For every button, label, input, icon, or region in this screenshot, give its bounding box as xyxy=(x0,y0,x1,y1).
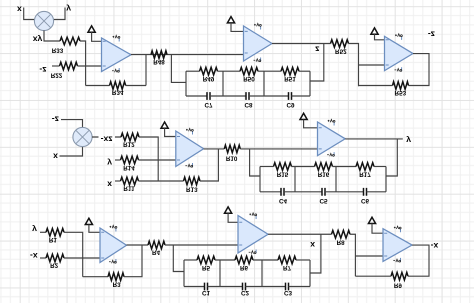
wire tee from U1-U2 wire down to network N1 xyxy=(171,55,186,83)
wire N2 left edge xyxy=(259,167,261,192)
wire y to R14 xyxy=(115,159,121,161)
svg-text:R11: R11 xyxy=(123,185,135,192)
node x (row1 input) xyxy=(17,4,22,14)
svg-text:C9: C9 xyxy=(286,101,295,108)
svg-text:R4: R4 xyxy=(152,249,161,256)
node x (row2 input) xyxy=(107,180,112,190)
wire N1 top rail segment 1 xyxy=(186,70,200,72)
wire from x to multiplier M1 xyxy=(24,8,35,20)
node x (row3 output) xyxy=(310,240,315,250)
wire N1 left edge xyxy=(185,71,187,96)
wire R34 rail left xyxy=(86,85,110,87)
svg-text:R1: R1 xyxy=(49,236,58,243)
svg-text:xy: xy xyxy=(33,34,43,44)
wire feedback riser U1 output to R34 xyxy=(145,55,147,86)
svg-text:R51: R51 xyxy=(284,75,296,82)
wire R34 rail right xyxy=(126,85,146,87)
svg-text:R9: R9 xyxy=(394,282,403,289)
wire R1 to summing node A3 xyxy=(64,232,83,276)
wire N1 right edge xyxy=(309,71,311,96)
svg-text:y: y xyxy=(406,136,411,146)
resistor R16 xyxy=(315,163,333,178)
op-amp U4 xyxy=(176,128,204,167)
wire -x to R2 xyxy=(40,257,46,259)
capacitor C8 xyxy=(244,92,253,108)
wire N2 junction 1 xyxy=(294,167,296,192)
resistor R22 xyxy=(51,62,78,78)
op-amp U3 (inverter) xyxy=(385,34,414,72)
wire R22 to op-amp U1 inverting input xyxy=(78,65,102,67)
wire R9 to U9 input node xyxy=(355,275,391,277)
op-amp U2 (integrator) xyxy=(244,23,273,61)
resistor R1 xyxy=(46,229,64,243)
wire N3 bottom rail segment 4 xyxy=(289,286,311,288)
wire N2 bottom rail segment 2 xyxy=(284,191,322,193)
wire x to R11 xyxy=(115,180,121,182)
svg-text:R17: R17 xyxy=(359,171,371,178)
wire tee down to network N2 xyxy=(250,149,260,176)
resistor R33 xyxy=(52,37,80,53)
resistor R5 xyxy=(197,256,215,271)
ground G3 at U3 non-inverting input xyxy=(371,28,385,40)
svg-text:R6: R6 xyxy=(240,264,249,271)
svg-text:R15: R15 xyxy=(277,171,289,178)
wire A3 rail to R3 xyxy=(83,276,108,278)
wire N1 junction 2 xyxy=(263,71,265,96)
svg-text:R12: R12 xyxy=(123,141,135,148)
op-amp U5 (integrator) xyxy=(318,119,346,156)
wire U9 output xyxy=(408,245,429,276)
wire N3 left edge xyxy=(183,260,185,287)
node y (row2 input) xyxy=(107,158,112,168)
svg-text:C5: C5 xyxy=(319,197,328,204)
resistor R6 xyxy=(235,256,253,271)
svg-text:z: z xyxy=(315,45,319,55)
wire N3 bottom rail segment 1 xyxy=(184,286,205,288)
svg-text:R50: R50 xyxy=(243,75,255,82)
wire R3 to U7 output riser xyxy=(124,245,142,276)
resistor R9 (U9 feedback) xyxy=(391,272,408,288)
ground G7 at U7 non-inverting input xyxy=(85,218,100,232)
wire R33 to summing node A1 xyxy=(80,41,86,86)
resistor R8 xyxy=(332,230,351,245)
wire U2 output to R52 xyxy=(272,43,331,45)
wire N1 top rail segment 3 xyxy=(258,70,281,72)
node -z (row2 input) xyxy=(52,115,59,125)
wire N1 bottom rail segment 4 xyxy=(292,95,311,97)
resistor R17 xyxy=(356,163,374,178)
wire R10 to U5 inverting input xyxy=(240,148,317,150)
svg-text:-x: -x xyxy=(30,251,38,261)
svg-text:R33: R33 xyxy=(52,46,64,53)
ground G8 at U8 non-inverting input xyxy=(225,207,239,222)
svg-text:R34: R34 xyxy=(112,88,124,95)
svg-text:y: y xyxy=(32,225,37,235)
svg-text:R7: R7 xyxy=(283,264,292,271)
wire N3 bottom rail segment 3 xyxy=(246,286,286,288)
resistor R12 xyxy=(121,133,139,147)
wire N3 top rail segment 3 xyxy=(253,259,278,261)
wire U4 output to R10 xyxy=(204,148,225,150)
node -x (row3 input) xyxy=(30,251,38,261)
wire N2 top rail segment 4 xyxy=(374,166,386,168)
wire N1 bottom rail segment 1 xyxy=(186,95,207,97)
node -z (row1 output) xyxy=(428,29,435,39)
wire R12 to summing node A2 xyxy=(139,137,158,181)
svg-text:-x: -x xyxy=(431,241,439,251)
wire from y to multiplier M1 xyxy=(53,8,65,20)
resistor R14 xyxy=(121,156,139,171)
resistor R2 xyxy=(46,254,64,269)
svg-text:R5: R5 xyxy=(202,264,211,271)
svg-text:R8: R8 xyxy=(337,239,346,246)
svg-text:-z: -z xyxy=(428,29,435,39)
wire spur to U9 inverting input xyxy=(355,255,383,257)
wire N1 bottom rail segment 2 xyxy=(210,95,246,97)
multiplier M2 (-x*z) xyxy=(73,127,92,146)
op-amp U8 (integrator) xyxy=(238,213,268,254)
svg-text:y: y xyxy=(107,158,112,168)
wire R53 to U3 input node xyxy=(359,85,393,87)
capacitor C4 xyxy=(279,188,288,204)
ground G1 at U1 non-inverting input xyxy=(88,26,102,41)
svg-text:C3: C3 xyxy=(284,289,293,296)
wire N3 top rail segment 2 xyxy=(215,259,235,261)
wire R13 to U4 output riser xyxy=(200,149,218,181)
wire U8 output to R8 xyxy=(268,233,331,235)
node y (row2 output) xyxy=(406,136,411,146)
node -xz xyxy=(99,135,115,145)
op-amp U1 xyxy=(102,35,132,72)
node x (row2 mult input) xyxy=(53,152,58,162)
resistor R7 xyxy=(278,256,296,271)
svg-text:C4: C4 xyxy=(279,197,288,204)
capacitor C7 xyxy=(204,92,213,108)
wire N2 top rail segment 1 xyxy=(260,166,274,168)
wire N2 bottom rail segment 3 xyxy=(325,191,364,193)
resistor R52 xyxy=(331,40,349,55)
svg-text:-xz: -xz xyxy=(101,135,113,145)
wire R11 to R13 rail xyxy=(139,180,184,182)
svg-text:C1: C1 xyxy=(202,289,211,296)
wire N1 top rail segment 4 xyxy=(299,70,310,72)
wire riser from z wire to N1 right xyxy=(310,44,324,82)
svg-text:-z: -z xyxy=(52,115,59,125)
node xy xyxy=(33,34,43,44)
wire y to R1 xyxy=(40,231,46,233)
wire U1 output to R48 and U2 xyxy=(131,54,244,56)
node z xyxy=(315,45,319,55)
svg-text:C6: C6 xyxy=(361,197,370,204)
capacitor C5 xyxy=(319,188,328,204)
node y (row3 input) xyxy=(32,225,37,235)
wire R14 to op-amp U4 inverting input xyxy=(139,159,176,161)
svg-text:x: x xyxy=(17,4,22,14)
wire -z to multiplier M2 xyxy=(61,120,83,128)
svg-text:C2: C2 xyxy=(241,289,250,296)
wire U7 output to R4 xyxy=(127,244,149,246)
resistor R15 xyxy=(274,163,292,178)
svg-text:x: x xyxy=(53,152,58,162)
resistor R48 xyxy=(151,51,167,65)
capacitor C6 xyxy=(361,188,370,204)
wire riser from y wire to N2 right xyxy=(386,139,397,176)
resistor R13 (U4 feedback) xyxy=(184,177,201,193)
svg-text:R2: R2 xyxy=(50,262,59,269)
svg-text:R22: R22 xyxy=(51,71,63,78)
svg-text:y: y xyxy=(66,4,71,14)
wire U5 output xyxy=(345,138,403,140)
svg-text:C7: C7 xyxy=(204,101,213,108)
wire N2 bottom rail segment 4 xyxy=(367,191,387,193)
svg-text:x: x xyxy=(310,240,315,250)
wire N3 right edge xyxy=(309,260,311,287)
wire U3 output xyxy=(409,54,430,86)
capacitor C9 xyxy=(286,92,295,108)
wire N2 top rail segment 2 xyxy=(292,166,315,168)
svg-text:R49: R49 xyxy=(203,75,215,82)
wire N2 junction 2 xyxy=(335,167,337,192)
resistor R50 xyxy=(240,67,258,82)
wire N3 bottom rail segment 2 xyxy=(208,286,243,288)
capacitor C1 xyxy=(202,283,211,297)
wire -z to R22 xyxy=(52,65,60,67)
node -z (row1 input) xyxy=(39,65,46,75)
resistor R4 xyxy=(148,241,165,256)
multiplier M1 (x*y) xyxy=(34,11,53,30)
ground G5 at U5 non-inverting input xyxy=(300,113,318,128)
resistor R11 xyxy=(121,177,139,192)
resistor R53 (U3 feedback) xyxy=(393,82,409,96)
resistor R3 (U7 feedback) xyxy=(108,273,124,287)
wire N2 bottom rail segment 1 xyxy=(260,191,281,193)
wire R8 to U9 input xyxy=(350,234,355,276)
wire N3 junction 1 xyxy=(219,260,221,287)
svg-text:x: x xyxy=(107,180,112,190)
wire N1 junction 1 xyxy=(222,71,224,96)
wire N3 top rail segment 4 xyxy=(296,259,310,261)
node y (row1 input) xyxy=(66,4,71,14)
ground G4 at U4 non-inverting input xyxy=(161,122,176,137)
wire x to multiplier M2 xyxy=(60,147,83,156)
op-amp U9 (inverter) xyxy=(383,226,412,262)
wire N3 junction 2 xyxy=(261,260,263,287)
wire riser from x wire to N3 right xyxy=(310,234,321,273)
wire tee down to network N3 xyxy=(173,245,184,272)
svg-text:R53: R53 xyxy=(395,89,407,96)
svg-text:R3: R3 xyxy=(113,280,122,287)
svg-text:R16: R16 xyxy=(318,171,330,178)
wire R52 to U3 input xyxy=(349,44,359,87)
resistor R49 xyxy=(200,67,218,82)
svg-text:C8: C8 xyxy=(244,101,253,108)
capacitor C3 xyxy=(284,283,293,297)
svg-text:R14: R14 xyxy=(123,164,135,171)
resistor R10 xyxy=(224,145,240,162)
resistor R51 xyxy=(281,67,299,82)
svg-text:R13: R13 xyxy=(186,186,198,193)
wire N1 top rail segment 2 xyxy=(218,70,241,72)
wire M2 output to R12 xyxy=(92,136,121,138)
op-amp U7 xyxy=(100,225,127,263)
svg-text:R48: R48 xyxy=(153,58,165,65)
svg-text:-z: -z xyxy=(39,65,46,75)
wire N3 top rail segment 1 xyxy=(184,259,197,261)
capacitor C2 xyxy=(241,283,250,297)
wire R4 to U8 inverting input xyxy=(165,244,238,246)
ground G2 at U2 non-inverting input xyxy=(227,17,243,32)
wire M1 output to R33 xyxy=(44,31,60,42)
wire R2 to op-amp U7 inverting input xyxy=(64,257,100,259)
wire N1 bottom rail segment 3 xyxy=(249,95,289,97)
wire N2 right edge xyxy=(385,167,387,192)
svg-text:R52: R52 xyxy=(335,48,347,55)
node -x (row3 output) xyxy=(431,241,439,251)
resistor R34 (U1 feedback) xyxy=(110,82,126,96)
svg-text:R10: R10 xyxy=(226,155,238,162)
wire spur to U3 inverting input xyxy=(359,64,385,66)
ground G9 at U9 non-inverting input xyxy=(368,217,383,233)
wire N2 top rail segment 3 xyxy=(333,166,357,168)
